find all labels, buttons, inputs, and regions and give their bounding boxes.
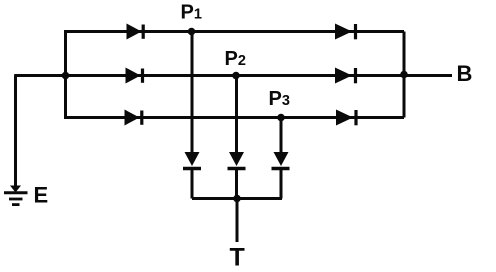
wire P3 diode to bottom bus bbox=[280, 168, 283, 199]
node left bus junction dot bbox=[62, 72, 70, 80]
wire P2 drop vertical bbox=[235, 76, 238, 153]
ground symbol E bbox=[4, 186, 28, 205]
diode CR8 down P2 bbox=[228, 152, 246, 169]
svg-text:T: T bbox=[230, 244, 245, 272]
wire row3 horizontal bbox=[64, 116, 404, 119]
wire row2 horizontal bbox=[14, 74, 452, 77]
node T junction dot bbox=[233, 195, 241, 203]
svg-text:P1: P1 bbox=[181, 2, 202, 24]
diode CR4 row1 right bbox=[335, 24, 356, 40]
diode CR7 down P1 bbox=[183, 152, 201, 169]
diode CR5 row2 right bbox=[335, 68, 356, 84]
wire left bus vertical bbox=[64, 32, 67, 118]
node P1 junction dot bbox=[188, 28, 196, 36]
svg-text:P2: P2 bbox=[225, 48, 246, 70]
diode CR3 row3 left bbox=[125, 110, 142, 126]
node B junction dot bbox=[400, 71, 408, 79]
svg-text:P3: P3 bbox=[269, 88, 290, 110]
node P2 junction dot bbox=[232, 72, 240, 80]
diode CR2 row2 left bbox=[126, 68, 143, 84]
diode CR9 down P3 bbox=[272, 152, 290, 169]
wire bottom bus horizontal bbox=[192, 197, 282, 200]
diode CR1 row1 left bbox=[127, 24, 144, 40]
svg-text:B: B bbox=[457, 61, 473, 86]
wire P1 drop vertical bbox=[191, 32, 194, 153]
svg-text:E: E bbox=[34, 182, 49, 207]
wire P2 diode to bottom bus bbox=[235, 168, 238, 199]
wire E branch vertical bbox=[14, 76, 17, 189]
wire row1 horizontal bbox=[64, 30, 404, 33]
wire P3 drop vertical bbox=[280, 118, 283, 153]
diode CR6 row3 right bbox=[336, 110, 356, 126]
wire right bus vertical bbox=[403, 32, 406, 118]
wire P1 diode to bottom bus bbox=[191, 168, 194, 199]
wire T stem vertical bbox=[236, 199, 239, 243]
node P3 junction dot bbox=[277, 114, 285, 122]
